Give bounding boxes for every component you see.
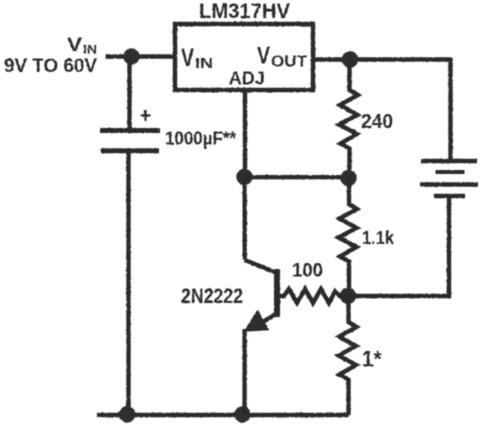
emitter diagonal — [256, 314, 277, 327]
node junction R1/R2/ADJ — [340, 170, 356, 186]
node VIN input label — [67, 34, 97, 57]
base bar — [274, 269, 280, 317]
svg-text:LM317HV: LM317HV — [199, 0, 290, 23]
wire input lead to VIN pin — [106, 54, 176, 58]
svg-text:V: V — [181, 44, 194, 72]
wire ADJ horizontal — [245, 175, 350, 179]
svg-text:1000µF**: 1000µF** — [165, 129, 236, 149]
wire VOUT pin to battery positive — [313, 60, 451, 162]
emitter arrowhead — [246, 312, 268, 331]
collector diagonal — [245, 260, 278, 273]
svg-text:2N2222: 2N2222 — [181, 285, 243, 308]
svg-text:1*: 1* — [362, 347, 382, 372]
emitter lead vertical — [242, 329, 246, 415]
node junction rail/capacitor — [119, 406, 135, 422]
svg-text:V: V — [67, 34, 82, 56]
pin label VOUT (U1 pin) — [257, 43, 308, 71]
wire battery negative return — [348, 197, 449, 296]
svg-text:OUT: OUT — [271, 54, 308, 71]
node junction R2/R3/R4/battery- — [340, 288, 356, 304]
resistor R2 1.1k — [339, 178, 358, 296]
svg-text:ADJ: ADJ — [229, 68, 265, 89]
resistor R1 240 — [339, 60, 358, 178]
resistor R4 1* — [339, 296, 357, 415]
capacitor C1 plates — [100, 131, 160, 151]
pin label VIN (U1 pin) — [181, 44, 213, 72]
wire bottom rail — [97, 413, 349, 418]
node junction input/capacitor — [123, 48, 139, 64]
wire capacitor top lead — [127, 57, 131, 130]
wire ADJ pin vertical — [243, 90, 247, 177]
battery B1 plates — [420, 161, 478, 196]
svg-text:240: 240 — [361, 111, 393, 133]
svg-text:IN: IN — [195, 56, 213, 72]
collector lead vertical — [242, 177, 246, 260]
transistor Q1 2N2222 — [245, 177, 278, 415]
svg-text:1.1k: 1.1k — [362, 228, 395, 248]
op-amp U1 LM317HV regulator box — [175, 24, 313, 90]
node junction rail/emitter — [234, 406, 250, 422]
resistor R3 100 (horizontal) — [279, 289, 348, 303]
svg-text:100: 100 — [292, 261, 323, 282]
svg-text:9V TO 60V: 9V TO 60V — [4, 56, 97, 77]
svg-text:IN: IN — [83, 43, 97, 57]
svg-text:V: V — [257, 43, 270, 70]
node junction VOUT/R1 — [342, 51, 358, 67]
svg-text:+: + — [140, 104, 152, 127]
node junction ADJ/collector — [236, 169, 252, 185]
wire capacitor bottom lead — [126, 153, 130, 415]
